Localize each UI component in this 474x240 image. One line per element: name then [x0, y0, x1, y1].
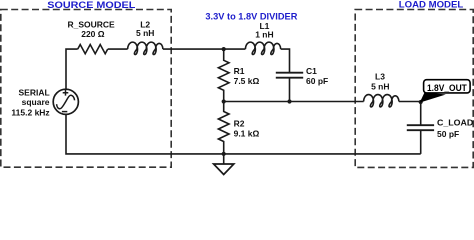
svg-text:7.5 kΩ: 7.5 kΩ: [234, 76, 260, 86]
svg-text:LOAD MODEL: LOAD MODEL: [399, 0, 464, 10]
svg-text:50 pF: 50 pF: [437, 129, 459, 139]
svg-text:R1: R1: [234, 66, 245, 76]
svg-text:1.8V_OUT: 1.8V_OUT: [427, 83, 467, 93]
svg-text:60 pF: 60 pF: [306, 76, 328, 86]
svg-text:SERIAL: SERIAL: [19, 87, 50, 97]
svg-text:R2: R2: [234, 119, 245, 129]
svg-text:5 nH: 5 nH: [136, 28, 154, 38]
svg-text:C1: C1: [306, 66, 317, 76]
svg-text:3.3V to 1.8V DIVIDER: 3.3V to 1.8V DIVIDER: [205, 12, 297, 23]
svg-text:SOURCE MODEL: SOURCE MODEL: [47, 0, 135, 11]
svg-text:L3: L3: [375, 71, 385, 81]
svg-text:9.1 kΩ: 9.1 kΩ: [234, 128, 260, 138]
svg-text:C_LOAD: C_LOAD: [437, 118, 473, 128]
svg-text:115.2 kHz: 115.2 kHz: [11, 107, 49, 117]
svg-text:220 Ω: 220 Ω: [81, 29, 105, 39]
svg-text:1 nH: 1 nH: [255, 29, 273, 39]
svg-text:square: square: [22, 97, 50, 107]
svg-text:5 nH: 5 nH: [371, 81, 389, 91]
